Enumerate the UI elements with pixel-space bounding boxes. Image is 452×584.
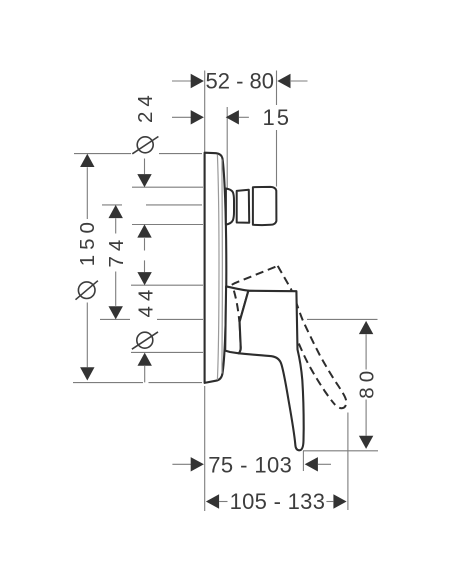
diameter symbol of D44: [132, 332, 158, 349]
cartridge knob (large cylinder): [253, 187, 277, 225]
dashed handle alternate position: inner tail edge: [299, 344, 335, 405]
extension line y=450.8 (handle tip bottom): [303, 450, 378, 452]
extension line y=187.2 (stub top): [132, 186, 203, 188]
cartridge flange (tapered): [226, 189, 234, 225]
svg-text:15: 15: [263, 105, 291, 130]
extension line y=204.9 (stub centerline): [102, 204, 202, 206]
dashed handle alternate position: outer curve to tip: [278, 266, 347, 408]
dimension 75-103: [172, 452, 331, 477]
svg-text:80: 80: [356, 366, 379, 399]
vertical extension x=347.9 (dim 105-133 right): [347, 413, 349, 511]
svg-text:24: 24: [134, 90, 157, 123]
vertical extension x=276.5 (dim 52-80 right): [276, 71, 278, 187]
extension line y=224.5 (stub bottom): [132, 224, 203, 226]
plate face edge line (outer rim): [221, 160, 223, 374]
extension line y=153.6 (plate top / d150 top): [74, 153, 202, 155]
svg-text:75 - 103: 75 - 103: [208, 452, 292, 477]
svg-text:44: 44: [134, 285, 157, 318]
svg-text:52 - 80: 52 - 80: [206, 69, 275, 94]
svg-text:105 - 133: 105 - 133: [230, 489, 326, 514]
vertical extension x=227.2 (dim 15 right): [226, 107, 228, 188]
dimension 52-80: [172, 69, 308, 94]
dashed handle alternate position: top edge: [232, 266, 347, 408]
dimension 105-133: [206, 489, 347, 514]
extension line y=285.2 (cone top): [131, 284, 203, 286]
dimension 15: [172, 105, 291, 130]
diameter symbol of D24: [132, 137, 158, 154]
dimension D44 chain (outside arrows + label): [132, 272, 158, 382]
handle base cone (D44): [225, 286, 248, 353]
cartridge small cylinder: [237, 190, 250, 223]
dimension 80 (right side vertical): [356, 321, 379, 449]
extension line y=352.4 (cone bottom): [131, 351, 203, 353]
dashed handle alternate position: hidden lower edge over cone: [234, 291, 240, 322]
extension line y=382.6 (plate bottom): [73, 382, 202, 384]
diameter symbol of D150: [76, 281, 98, 300]
vertical extension x=204.7 below plate: [204, 386, 206, 511]
dimension D150 (left vertical): [76, 154, 100, 381]
svg-text:74: 74: [105, 235, 128, 268]
vertical extension x=204.7 above plate: [204, 71, 206, 153]
dimension D24 chain (label + outside arrows): [132, 90, 158, 272]
dimension 74 (left vertical): [105, 205, 128, 320]
escutcheon plate (side view): [205, 153, 227, 383]
handle lever (solid position): [239, 291, 304, 451]
svg-text:150: 150: [76, 217, 99, 266]
plate face edge line (inner rim): [217, 155, 219, 380]
extension line y=319.4 (cone centerline, both sides): [100, 318, 378, 320]
vertical extension x=303.4 (dim 75-103 right): [302, 451, 304, 471]
